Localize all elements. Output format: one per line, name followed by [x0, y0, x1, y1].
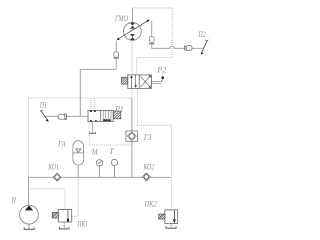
solenoid of R1 — [114, 111, 121, 119]
wire: manometer stem — [99, 166, 101, 177]
svg-text:М: М — [91, 147, 99, 156]
hose end symbol P2 — [201, 40, 209, 55]
thermometer T — [111, 159, 117, 165]
solenoid of PK2 — [159, 214, 165, 219]
wire: dashed accumulator pilot down to PK1 right port — [72, 177, 78, 216]
tank under pump — [24, 224, 35, 229]
wire: motor top stub — [131, 8, 133, 23]
accumulator GA — [73, 141, 84, 165]
wire: main bottom bus — [29, 176, 172, 178]
wire: thermometer stem — [114, 166, 116, 178]
svg-text:ПК2: ПК2 — [144, 200, 157, 209]
wire: dashed P1 bottom port to GZ column — [89, 122, 132, 145]
left damper capsule — [113, 52, 119, 59]
wire: left capsule stubs — [115, 41, 117, 70]
svg-text:Р1: Р1 — [114, 105, 124, 114]
right damper capsule — [149, 36, 155, 44]
svg-text:ГА: ГА — [57, 140, 65, 149]
svg-text:ПК1: ПК1 — [77, 220, 88, 229]
wire: dashed left vertical down to bus — [28, 98, 30, 177]
svg-text:П2: П2 — [198, 30, 206, 39]
wire: pump riser — [28, 177, 30, 205]
solenoid of PK1 — [52, 212, 58, 218]
svg-text:КО2: КО2 — [143, 162, 155, 171]
wire: right capsule top stub — [151, 21, 153, 36]
wire: accumulator stem — [77, 165, 79, 177]
svg-text:КО1: КО1 — [47, 162, 58, 171]
pilot check valve GZ — [126, 131, 138, 141]
wire junction hop mask (no-connection crossing) — [171, 46, 175, 48]
spring and leader dot of R2 — [152, 76, 164, 83]
wire: dashed line y=98 from left corner to GZ column — [29, 97, 132, 99]
svg-text:Т: Т — [109, 147, 114, 156]
wire: dashed pilot loop motor top to P2 valve right top port — [132, 8, 172, 75]
valve R2 — [128, 75, 152, 89]
svg-text:ГМО: ГМО — [114, 14, 128, 23]
wire: dashed P1 top stubs — [91, 98, 95, 110]
svg-text:ГЗ: ГЗ — [143, 133, 152, 142]
relief valve PK1 — [58, 209, 71, 222]
quick coupling P1 — [58, 114, 66, 120]
hose end symbol P1 — [40, 110, 49, 122]
tank stub under R1 — [89, 122, 96, 134]
wire: P2 line from right capsule to coupling with hop over pilot line — [152, 44, 203, 48]
svg-text:Р2: Р2 — [156, 65, 166, 74]
relief valve PK2 — [165, 210, 178, 224]
wire: P1 horizontal line through coupling — [45, 115, 88, 117]
tank under PK2 — [165, 223, 176, 228]
wire: dashed P2 bottom-left port stub — [131, 88, 133, 98]
wire: GZ column solid — [131, 98, 133, 177]
valve R1 — [88, 110, 113, 121]
check valve KO1 — [53, 173, 61, 181]
wire: horizontal from left capsule to junction — [80, 68, 116, 70]
wire: vertical junction line down to P1 port line — [79, 69, 81, 116]
hydraulic motor GMO — [117, 20, 150, 41]
tank under PK1 — [59, 222, 70, 229]
wire: dashed pump branch to PK1 — [29, 189, 65, 210]
quick coupling P2 — [185, 46, 192, 51]
pump N — [20, 205, 39, 224]
check valve KO2 — [143, 173, 151, 181]
wire: dashed motor bottom port down to P2 valve left top port — [131, 41, 133, 75]
svg-text:П1: П1 — [39, 100, 47, 109]
wire: dashed P2 bottom-right port to PK2 — [138, 88, 172, 209]
solenoid of R2 — [122, 77, 128, 84]
manometer M — [96, 160, 102, 166]
